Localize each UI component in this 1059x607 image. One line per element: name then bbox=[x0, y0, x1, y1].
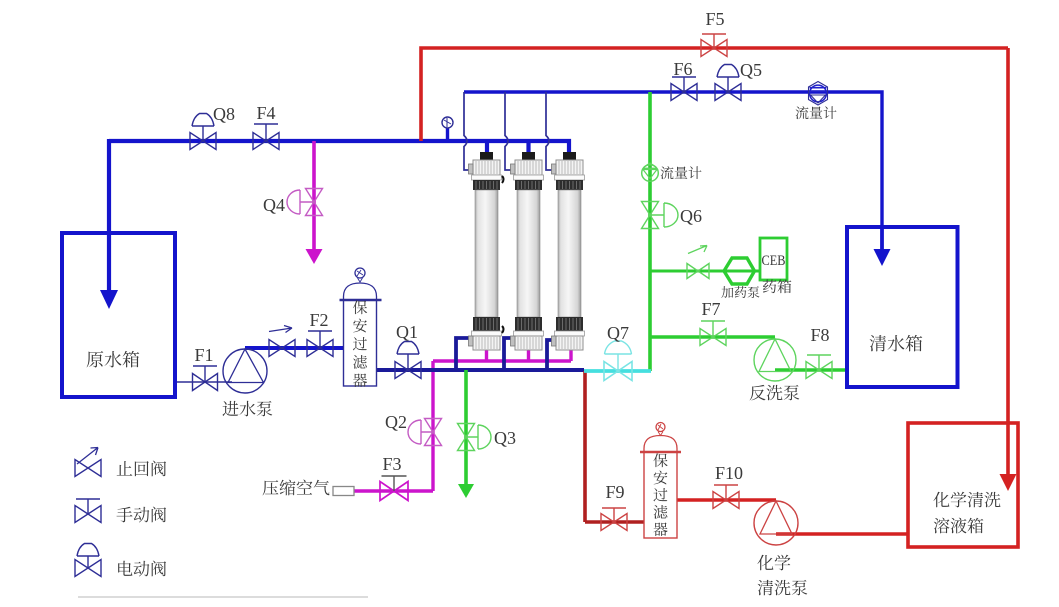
security filter 保安过滤器 (blue) bbox=[340, 268, 382, 386]
flow meter on permeate line 流量计 bbox=[809, 82, 828, 106]
tank: clean water tank 清水箱 bbox=[847, 227, 958, 387]
wire: magenta air line from feed y=141 down + arrow bbox=[312, 141, 316, 253]
svg-text:F4: F4 bbox=[256, 103, 275, 123]
valve Q5 electric on permeate header bbox=[715, 65, 741, 101]
svg-text:Q5: Q5 bbox=[740, 60, 762, 80]
wire: green backwash pump outlet y=370 bbox=[775, 368, 846, 371]
pressure gauge on feed line bbox=[442, 117, 453, 141]
wire: green F7 branch y=337 bbox=[650, 335, 775, 338]
pump 化学清洗泵 chemical cleaning pump bbox=[754, 501, 798, 545]
check valve on feed pump outlet bbox=[269, 326, 295, 357]
separator line bottom bbox=[78, 596, 368, 598]
valve Q6 electric bbox=[642, 202, 679, 229]
valve Q3 electric (air outlet) bbox=[458, 424, 492, 451]
svg-text:Q4: Q4 bbox=[263, 195, 285, 215]
compressed air source 压缩空气 bbox=[333, 487, 354, 496]
svg-text:F2: F2 bbox=[309, 310, 328, 330]
wire: magenta bottom header y=361 + stems to modules bbox=[433, 348, 571, 361]
legend: electric valve 电动阀 bbox=[75, 544, 101, 577]
valve F3 manual on compressed air line bbox=[380, 476, 408, 501]
wire: feed pump outlet line y=348 bbox=[245, 346, 344, 350]
wire: blue arrow into clean water tank bbox=[880, 227, 884, 253]
valve Q7 electric (cyan) bbox=[604, 341, 632, 381]
svg-text:Q7: Q7 bbox=[607, 323, 629, 343]
wire: red vertical into chemical tank + arrow bbox=[1006, 48, 1010, 478]
wire: red filter outlet to F10 to pump y=500 bbox=[677, 498, 776, 501]
valve F10 manual bbox=[713, 485, 739, 509]
svg-text:F5: F5 bbox=[705, 9, 724, 29]
small dark marks next to module 1 bbox=[502, 176, 504, 333]
UF membrane module 1 bbox=[469, 152, 502, 350]
svg-text:CEB: CEB bbox=[762, 253, 786, 269]
valve Q4 electric (air vent) bbox=[287, 189, 323, 216]
wire: thin permeate hooks from header to module tops (with crossing jogs) bbox=[464, 92, 473, 170]
svg-text:F7: F7 bbox=[701, 299, 720, 319]
svg-text:F1: F1 bbox=[194, 345, 213, 365]
wire: magenta vertical x=433 through Q2 to F3 line bbox=[354, 361, 433, 491]
svg-text:F9: F9 bbox=[605, 482, 624, 502]
CEB chemical box 药箱 bbox=[760, 238, 787, 280]
tank: chemical cleaning solution tank 化学清洗溶液箱 bbox=[908, 423, 1018, 547]
UF membrane module 3 bbox=[552, 152, 585, 350]
svg-text:F8: F8 bbox=[810, 325, 829, 345]
check valve on dosing line bbox=[687, 246, 709, 279]
valve F1 manual bbox=[193, 366, 218, 391]
valve F9 manual bbox=[601, 508, 627, 531]
svg-text:F6: F6 bbox=[673, 59, 692, 79]
svg-text:Q1: Q1 bbox=[396, 322, 418, 342]
dosing pump 加药泵 (hexagon) bbox=[724, 258, 755, 284]
wire: red chemical pump outlet to tank y=534 bbox=[776, 532, 909, 535]
wire: green air/drain branch x=466 + arrow bbox=[464, 370, 468, 488]
wire: bottom blue header filter->Q1->modules y=370 bbox=[376, 368, 584, 372]
valve Q1 electric bbox=[395, 342, 421, 379]
valve F8 manual bbox=[806, 355, 832, 379]
security filter 保安过滤器 (red) bbox=[640, 423, 681, 539]
UF membrane module 2 bbox=[511, 152, 544, 350]
wire: tank outlet to F1 to pump y=382 bbox=[175, 381, 232, 383]
pump 反洗泵 backwash pump bbox=[754, 339, 796, 381]
valve Q8 electric bbox=[190, 114, 216, 150]
wire: cyan backwash line y=371 bbox=[584, 369, 651, 373]
valve F4 manual bbox=[253, 124, 279, 150]
wire: green vertical main x=650 bbox=[648, 92, 652, 371]
svg-text:F3: F3 bbox=[382, 454, 401, 474]
legend: check valve 止回阀 bbox=[75, 448, 101, 477]
valve F6 manual on permeate header bbox=[671, 77, 697, 101]
wire: blue vertical into raw water tank + arrow bbox=[107, 139, 111, 294]
legend: manual valve 手动阀 bbox=[75, 499, 101, 523]
valve Q2 electric (air inlet) bbox=[408, 419, 442, 446]
wire: red drain vertical x=585 and F9 run y=522 bbox=[585, 371, 644, 522]
svg-text:F10: F10 bbox=[715, 463, 743, 483]
wire: blue feed drops to modules 1,2 bbox=[487, 141, 529, 153]
wire: blue permeate header y=92 to clean tank bbox=[464, 92, 882, 227]
wire: red CIP top line y=48 with left drop to feed line bbox=[421, 48, 1008, 141]
tank: raw water tank 原水箱 bbox=[62, 233, 175, 397]
svg-text:Q8: Q8 bbox=[213, 104, 235, 124]
svg-text:Q2: Q2 bbox=[385, 412, 407, 432]
flow meter 流量计 (green) bbox=[642, 163, 659, 181]
svg-text:Q6: Q6 bbox=[680, 206, 702, 226]
svg-text:Q3: Q3 bbox=[494, 428, 516, 448]
valve F2 manual bbox=[307, 331, 333, 357]
wire: blue feed main line y=141 bbox=[109, 141, 569, 153]
wire: green dosing branch y=271 bbox=[650, 270, 760, 273]
valve F5 manual on red CIP line bbox=[701, 34, 727, 57]
wire: navy bottom elbows from module bottom ports to header bbox=[456, 338, 474, 370]
pump 进水泵 feed pump bbox=[223, 349, 267, 393]
valve F7 manual bbox=[700, 321, 726, 346]
